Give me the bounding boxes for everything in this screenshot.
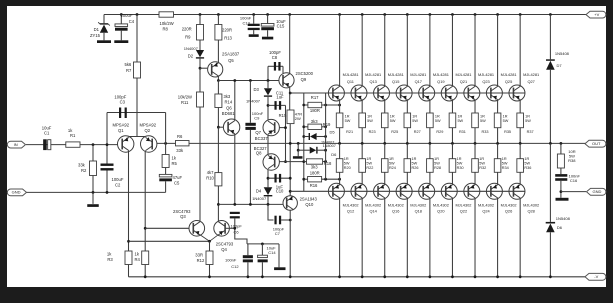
resistor R38 10R 5W bbox=[560, 142, 563, 145]
svg-text:5W: 5W bbox=[435, 119, 441, 123]
capacitor C10 bbox=[267, 177, 270, 180]
svg-text:OUT: OUT bbox=[592, 141, 601, 146]
capacitor C16 bbox=[560, 168, 562, 174]
transistor Q18 MJL4302 bbox=[396, 183, 412, 199]
svg-text:C3: C3 bbox=[120, 100, 126, 105]
svg-text:R34: R34 bbox=[502, 166, 509, 170]
svg-text:5W: 5W bbox=[479, 161, 485, 165]
svg-text:Q2: Q2 bbox=[145, 128, 151, 133]
svg-text:R28: R28 bbox=[434, 166, 441, 170]
transistor Q27 MJL4281 bbox=[519, 13, 522, 16]
svg-text:R29: R29 bbox=[436, 130, 443, 134]
svg-text:5W: 5W bbox=[412, 161, 418, 165]
svg-text:1N4007: 1N4007 bbox=[246, 98, 261, 103]
svg-text:5W: 5W bbox=[525, 119, 531, 123]
resistor R17 bbox=[302, 104, 305, 107]
resistor R31 1R 5W bbox=[451, 100, 453, 113]
wire Q4 base bbox=[225, 227, 235, 229]
svg-text:Q12: Q12 bbox=[347, 209, 354, 214]
svg-text:1R: 1R bbox=[457, 114, 462, 118]
svg-text:MJL4302: MJL4302 bbox=[501, 202, 517, 207]
svg-text:Q7: Q7 bbox=[255, 130, 261, 135]
wire C3 link bbox=[107, 112, 166, 114]
svg-text:MJL4281: MJL4281 bbox=[501, 72, 517, 77]
resistor R26 1R 5W bbox=[406, 143, 408, 158]
svg-text:2SA1837: 2SA1837 bbox=[222, 51, 240, 56]
svg-text:33k: 33k bbox=[78, 163, 86, 168]
diode D6 1N5408 bbox=[549, 143, 551, 222]
resistor R18 bbox=[302, 160, 305, 163]
terminal GND right bbox=[587, 188, 606, 195]
transistor Q21 MJL4281 bbox=[451, 13, 454, 16]
capacitor C4 bbox=[120, 13, 123, 16]
terminal IN bbox=[7, 141, 25, 148]
wire bus to ground bbox=[278, 244, 280, 267]
transistor Q6 BD681 bbox=[223, 119, 239, 135]
svg-text:-V: -V bbox=[594, 274, 598, 279]
svg-text:R6: R6 bbox=[177, 134, 183, 139]
wire Q20 collector bbox=[429, 198, 431, 277]
resistor R14 bbox=[217, 81, 219, 95]
svg-text:5W: 5W bbox=[457, 119, 463, 123]
resistor R13 bbox=[217, 13, 220, 16]
svg-text:MJL4281: MJL4281 bbox=[455, 72, 471, 77]
wire Q9 emitter bbox=[289, 87, 291, 110]
svg-text:Q16: Q16 bbox=[392, 209, 399, 214]
svg-text:R18: R18 bbox=[324, 161, 332, 166]
svg-text:4k7: 4k7 bbox=[207, 170, 214, 175]
transistor Q20 MJL4302 bbox=[419, 183, 435, 199]
resistor R8 bbox=[159, 12, 174, 17]
wire Q5 collector bbox=[217, 76, 219, 81]
svg-text:MPSA92: MPSA92 bbox=[113, 123, 130, 128]
svg-text:180R: 180R bbox=[310, 108, 320, 113]
svg-text:5W: 5W bbox=[390, 119, 396, 123]
resistor R7 bbox=[136, 13, 139, 16]
transistor Q10 2SA1943 bbox=[283, 196, 297, 210]
svg-text:1R: 1R bbox=[367, 114, 372, 118]
svg-text:100uF: 100uF bbox=[121, 13, 133, 18]
svg-text:Q28: Q28 bbox=[527, 209, 534, 214]
svg-text:1R: 1R bbox=[412, 157, 417, 161]
node Q5 base bbox=[199, 67, 202, 70]
svg-text:R16: R16 bbox=[310, 183, 318, 188]
resistor R23 1R 5W bbox=[361, 100, 363, 113]
svg-text:Q17: Q17 bbox=[415, 79, 422, 84]
svg-text:3k3: 3k3 bbox=[311, 119, 318, 124]
svg-text:R9: R9 bbox=[185, 34, 191, 39]
svg-text:2SC5200: 2SC5200 bbox=[296, 71, 314, 76]
transistor Q11 MJL4281 bbox=[338, 13, 341, 16]
svg-text:C8: C8 bbox=[272, 55, 278, 60]
terminal GND left bbox=[7, 189, 26, 196]
wire Q7 base bbox=[279, 127, 285, 129]
wire Q2 collector bbox=[144, 151, 146, 229]
wire Q6 emitter bbox=[234, 134, 236, 205]
resistor R9 bbox=[199, 13, 202, 16]
wire Q10 base line bbox=[218, 203, 283, 205]
svg-text:Q9: Q9 bbox=[301, 77, 307, 82]
svg-text:1N5408: 1N5408 bbox=[555, 51, 570, 56]
svg-text:10uF: 10uF bbox=[42, 125, 52, 130]
node R2 ground bbox=[92, 191, 95, 194]
wire bottom -V rail bbox=[129, 276, 589, 278]
wire Q7 emitter to Q8 bbox=[267, 135, 269, 154]
resistor R2 bbox=[92, 145, 94, 161]
svg-text:R21: R21 bbox=[346, 130, 353, 134]
resistor R33 1R 5W bbox=[474, 100, 476, 113]
svg-text:Q10: Q10 bbox=[305, 202, 314, 207]
wire to GND tag bbox=[561, 191, 586, 193]
svg-text:D4: D4 bbox=[256, 188, 262, 193]
svg-text:+V: +V bbox=[594, 12, 599, 17]
svg-text:1N4007: 1N4007 bbox=[252, 196, 267, 201]
wire Q1 collector bbox=[128, 151, 130, 251]
svg-text:5W: 5W bbox=[503, 119, 509, 123]
terminal -V bottom right bbox=[585, 273, 606, 280]
svg-text:Q19: Q19 bbox=[437, 79, 444, 84]
svg-text:Q5: Q5 bbox=[228, 58, 234, 63]
transistor Q4 2SC4793 bbox=[214, 221, 230, 237]
svg-text:Q15: Q15 bbox=[392, 79, 399, 84]
wire Q26 collector bbox=[497, 198, 499, 277]
wire Q14 collector bbox=[361, 198, 363, 277]
svg-text:D7: D7 bbox=[557, 63, 563, 68]
diode D5 1N4007 bbox=[302, 135, 305, 138]
svg-text:C1: C1 bbox=[44, 131, 50, 136]
svg-text:C4: C4 bbox=[129, 19, 135, 24]
resistor R19 3k3 bbox=[302, 125, 305, 128]
svg-text:C9: C9 bbox=[254, 116, 260, 121]
transistor Q5 2SA1837 bbox=[217, 40, 219, 63]
svg-text:D6: D6 bbox=[557, 225, 563, 230]
transistor Q13 MJL4281 bbox=[361, 13, 364, 16]
wire ladder right rail bbox=[325, 93, 327, 179]
bar stub bbox=[297, 150, 299, 156]
svg-text:1R: 1R bbox=[412, 114, 417, 118]
svg-text:R26: R26 bbox=[412, 166, 419, 170]
ground bar under D1 bbox=[97, 40, 111, 43]
resistor R30 1R 5W bbox=[451, 143, 453, 158]
svg-text:5W: 5W bbox=[434, 161, 440, 165]
svg-text:R20: R20 bbox=[344, 166, 351, 170]
svg-text:C10: C10 bbox=[276, 189, 284, 194]
wire Q8 base line bbox=[279, 161, 303, 163]
resistor R25 1R 5W bbox=[384, 100, 386, 113]
svg-text:R33: R33 bbox=[482, 130, 489, 134]
svg-text:MJL4281: MJL4281 bbox=[523, 72, 539, 77]
capacitor C13 bbox=[252, 13, 255, 16]
wire Q18 collector bbox=[406, 198, 408, 277]
svg-text:1R: 1R bbox=[434, 157, 439, 161]
wire Q16 collector bbox=[384, 198, 386, 277]
wire Q9 collector to rail bbox=[288, 13, 291, 16]
svg-text:1R: 1R bbox=[457, 157, 462, 161]
svg-text:MJL4281: MJL4281 bbox=[478, 72, 494, 77]
transistor Q23 MJL4281 bbox=[474, 13, 477, 16]
svg-text:MJL4302: MJL4302 bbox=[410, 202, 426, 207]
ground bar under C4 bbox=[114, 40, 128, 43]
svg-text:5k6: 5k6 bbox=[125, 62, 132, 67]
svg-text:MJL4281: MJL4281 bbox=[388, 72, 404, 77]
svg-text:R31: R31 bbox=[459, 130, 466, 134]
capacitor C11 bbox=[268, 104, 286, 106]
svg-text:D5: D5 bbox=[330, 129, 336, 134]
svg-text:C16: C16 bbox=[570, 178, 578, 183]
resistor R28 1R 5W bbox=[429, 143, 431, 158]
svg-text:10k/2W: 10k/2W bbox=[178, 95, 192, 100]
svg-text:1R: 1R bbox=[479, 157, 484, 161]
svg-text:MJL4281: MJL4281 bbox=[365, 72, 381, 77]
svg-text:2SA1943: 2SA1943 bbox=[300, 196, 318, 201]
transistor Q12 MJL4302 bbox=[328, 183, 344, 199]
resistor R34 1R 5W bbox=[497, 143, 499, 158]
svg-text:Q1: Q1 bbox=[118, 128, 124, 133]
capacitor C1 bbox=[43, 139, 47, 150]
capacitor C15 bbox=[266, 13, 269, 16]
svg-text:C2: C2 bbox=[115, 183, 121, 188]
svg-text:R13: R13 bbox=[224, 35, 232, 40]
svg-text:R19: R19 bbox=[323, 122, 331, 127]
svg-text:5W: 5W bbox=[367, 119, 373, 123]
svg-text:220R: 220R bbox=[222, 27, 232, 32]
capacitor C9 bbox=[249, 79, 252, 82]
svg-text:C6: C6 bbox=[234, 229, 240, 234]
wire VAS base line bbox=[217, 79, 220, 82]
resistor R32 1R 5W bbox=[474, 143, 476, 158]
resistor R20 1R 5W bbox=[339, 143, 341, 158]
wire C8 right leg bbox=[282, 66, 284, 73]
wire Q4 collector net bbox=[217, 127, 219, 172]
svg-text:Q3: Q3 bbox=[180, 214, 186, 219]
svg-text:GND: GND bbox=[593, 189, 602, 194]
svg-text:5W: 5W bbox=[524, 161, 530, 165]
svg-text:R25: R25 bbox=[391, 130, 398, 134]
capacitor C5 bbox=[165, 168, 167, 175]
diode D3 1N4007 bbox=[267, 81, 269, 89]
resistor R16 bbox=[302, 178, 305, 181]
transistor Q3 2SC4793 bbox=[189, 221, 205, 237]
ground bar under C13 bbox=[249, 34, 259, 37]
capacitor C3 bbox=[119, 108, 121, 119]
wire Q22 collector bbox=[451, 198, 453, 277]
svg-text:10k/2W: 10k/2W bbox=[160, 21, 174, 26]
svg-text:Q8: Q8 bbox=[256, 150, 262, 155]
svg-text:1R: 1R bbox=[480, 114, 485, 118]
svg-text:33R: 33R bbox=[195, 252, 203, 257]
svg-text:C13: C13 bbox=[243, 20, 251, 25]
svg-text:1R: 1R bbox=[389, 157, 394, 161]
svg-text:5W: 5W bbox=[366, 161, 372, 165]
svg-text:BD681: BD681 bbox=[222, 111, 235, 116]
wire Q6 collector bbox=[234, 81, 236, 121]
svg-text:C15: C15 bbox=[277, 24, 285, 29]
capacitor C12 bbox=[247, 244, 249, 255]
svg-text:5W: 5W bbox=[389, 161, 395, 165]
svg-text:Q22: Q22 bbox=[460, 209, 467, 214]
svg-text:R24: R24 bbox=[389, 166, 396, 170]
diode D6a 1N4007 bbox=[297, 142, 300, 145]
transistor Q8 BC327 bbox=[263, 154, 279, 170]
transistor Q7 BC337 bbox=[263, 119, 279, 135]
svg-text:1N4007: 1N4007 bbox=[184, 46, 199, 51]
svg-text:R12: R12 bbox=[197, 258, 205, 263]
transistor Q9 2SC5200 bbox=[279, 73, 294, 88]
capacitor C7 bbox=[267, 203, 270, 206]
transistor Q1 MPSA92 bbox=[118, 136, 134, 152]
transistor Q22 MJL4302 bbox=[441, 183, 457, 199]
wire C8 left leg bbox=[267, 66, 269, 80]
node feedback bbox=[164, 142, 167, 145]
resistor R3 bbox=[125, 251, 132, 265]
wire Q24 collector bbox=[474, 198, 476, 277]
resistor R10 4k7 bbox=[215, 173, 222, 186]
wire Q3 emitter join bbox=[200, 235, 210, 242]
svg-text:1R: 1R bbox=[390, 114, 395, 118]
ground bar under C15 bbox=[262, 37, 273, 40]
svg-text:R4: R4 bbox=[135, 257, 141, 262]
node input divider bbox=[92, 143, 95, 146]
wire output rail bbox=[157, 142, 588, 144]
svg-text:Q18: Q18 bbox=[415, 209, 422, 214]
svg-text:3k3: 3k3 bbox=[224, 94, 231, 99]
svg-text:180R: 180R bbox=[310, 171, 320, 176]
svg-text:R8: R8 bbox=[163, 27, 169, 32]
svg-text:ZY15: ZY15 bbox=[90, 33, 101, 38]
resistor R37 1R 5W bbox=[519, 100, 521, 113]
svg-text:Q27: Q27 bbox=[527, 79, 534, 84]
svg-text:1R: 1R bbox=[435, 114, 440, 118]
diode D2 1N4007 bbox=[199, 40, 201, 50]
svg-text:1N5408: 1N5408 bbox=[556, 216, 571, 221]
resistor R12 bbox=[209, 241, 211, 251]
wire tail bbox=[136, 78, 138, 137]
wire R11 to Q3 bbox=[199, 107, 201, 221]
resistor R21 1R 5W bbox=[339, 100, 341, 113]
svg-text:R22: R22 bbox=[366, 166, 373, 170]
svg-text:C14: C14 bbox=[268, 250, 276, 255]
svg-text:R23: R23 bbox=[369, 130, 376, 134]
transistor Q2 MPSA92 bbox=[141, 136, 157, 152]
wire Q8 emitter bbox=[267, 170, 269, 188]
wire input line bbox=[26, 144, 118, 146]
terminal OUT bbox=[585, 140, 606, 147]
wire Q6 base bbox=[217, 108, 219, 128]
svg-text:R1: R1 bbox=[70, 133, 76, 138]
capacitor C2 bbox=[106, 113, 108, 164]
svg-text:GND: GND bbox=[12, 190, 21, 195]
transistor Q16 MJL4302 bbox=[374, 183, 390, 199]
svg-text:D3: D3 bbox=[253, 87, 259, 92]
svg-text:1R: 1R bbox=[502, 157, 507, 161]
svg-text:47uF: 47uF bbox=[173, 175, 183, 180]
resistor R35 1R 5W bbox=[497, 100, 499, 113]
svg-text:R38: R38 bbox=[568, 158, 576, 163]
svg-text:MJL4281: MJL4281 bbox=[433, 72, 449, 77]
wire bottom base rail bbox=[289, 190, 292, 193]
resistor R11 bbox=[199, 68, 201, 92]
svg-text:R36: R36 bbox=[524, 166, 531, 170]
svg-text:IN: IN bbox=[14, 142, 18, 147]
svg-text:R11: R11 bbox=[181, 100, 189, 105]
resistor R36 1R 5W bbox=[519, 143, 521, 158]
svg-text:5W: 5W bbox=[502, 161, 508, 165]
svg-text:R7: R7 bbox=[126, 68, 132, 73]
svg-text:R3: R3 bbox=[107, 257, 113, 262]
wire Q10 collector bbox=[289, 210, 291, 277]
node Q3 base bbox=[144, 227, 147, 230]
svg-text:R37: R37 bbox=[527, 130, 534, 134]
svg-text:1R: 1R bbox=[524, 157, 529, 161]
transistor Q26 MJL4302 bbox=[486, 183, 502, 199]
resistor R1 bbox=[66, 142, 80, 147]
svg-text:Q14: Q14 bbox=[369, 209, 377, 214]
svg-text:Q4: Q4 bbox=[221, 247, 227, 252]
ground bar mid bbox=[274, 267, 285, 270]
node zobel ground bbox=[560, 190, 563, 193]
ground bar under R2 bbox=[87, 204, 99, 207]
svg-text:1N4007: 1N4007 bbox=[323, 144, 336, 148]
terminal +V top right bbox=[586, 11, 606, 18]
svg-text:MJL4302: MJL4302 bbox=[343, 202, 359, 207]
wire Q28 collector bbox=[519, 198, 521, 277]
svg-text:MJL4281: MJL4281 bbox=[343, 72, 359, 77]
capacitor C14 bbox=[261, 243, 264, 246]
diode D4 1N4007 bbox=[264, 187, 273, 195]
svg-text:1R: 1R bbox=[366, 157, 371, 161]
svg-text:R14: R14 bbox=[225, 100, 233, 105]
transistor Q28 MJL4302 bbox=[509, 183, 525, 199]
transistor Q24 MJL4302 bbox=[464, 183, 480, 199]
svg-text:MJL4302: MJL4302 bbox=[478, 202, 494, 207]
wire C11 to R18 bbox=[285, 105, 287, 161]
svg-text:MJL4302: MJL4302 bbox=[455, 202, 471, 207]
svg-text:3k3: 3k3 bbox=[311, 165, 318, 170]
svg-text:5W: 5W bbox=[457, 161, 463, 165]
svg-text:100nF: 100nF bbox=[225, 257, 237, 262]
svg-text:R2: R2 bbox=[81, 168, 87, 173]
wire Q4 emitter join bbox=[210, 235, 219, 242]
ground bar zobel bbox=[556, 198, 569, 201]
svg-text:D6: D6 bbox=[331, 152, 337, 157]
svg-text:5W: 5W bbox=[344, 161, 350, 165]
svg-text:R17: R17 bbox=[311, 95, 319, 100]
svg-text:33k: 33k bbox=[176, 148, 184, 153]
svg-text:1R: 1R bbox=[345, 114, 350, 118]
transistor Q25 MJL4281 bbox=[496, 13, 499, 16]
resistor R6 bbox=[176, 141, 190, 146]
diode D7 1N5408 bbox=[549, 13, 552, 16]
svg-text:R10: R10 bbox=[206, 175, 214, 180]
wire top base rail bbox=[289, 92, 292, 95]
svg-text:MJL4302: MJL4302 bbox=[388, 202, 404, 207]
transistor Q14 MJL4302 bbox=[351, 183, 367, 199]
node D3 C11 bbox=[267, 104, 270, 107]
transistor Q17 MJL4281 bbox=[406, 13, 409, 16]
svg-text:Q20: Q20 bbox=[437, 209, 445, 214]
resistor R15 bbox=[287, 110, 294, 124]
resistor R27 1R 5W bbox=[406, 100, 408, 113]
resistor R5 bbox=[165, 113, 167, 155]
svg-text:R35: R35 bbox=[504, 130, 511, 134]
svg-text:1uF: 1uF bbox=[276, 95, 284, 100]
svg-text:Q21: Q21 bbox=[460, 79, 467, 84]
svg-text:1R: 1R bbox=[344, 157, 349, 161]
resistor R22 1R 5W bbox=[361, 143, 363, 158]
svg-text:5W: 5W bbox=[480, 119, 486, 123]
svg-text:Q25: Q25 bbox=[505, 79, 512, 84]
svg-text:MJL4302: MJL4302 bbox=[433, 202, 449, 207]
